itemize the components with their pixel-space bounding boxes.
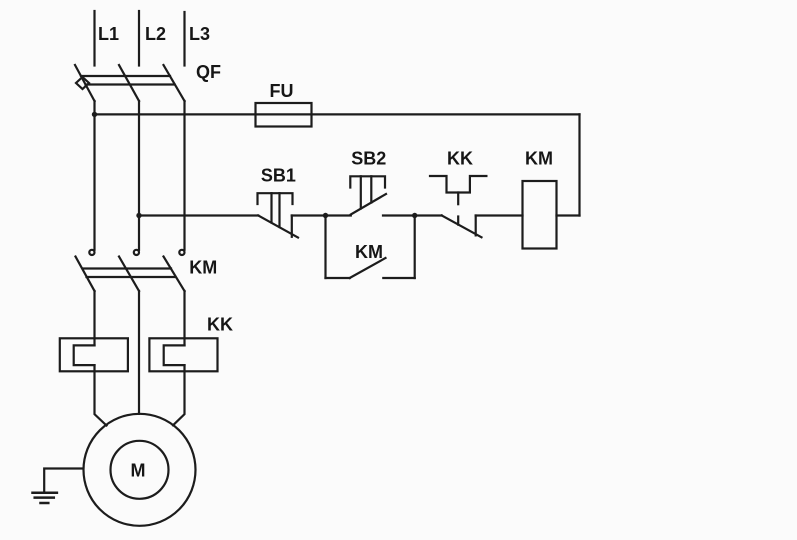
wire control feed to SB1 — [139, 214, 258, 216]
wire right drop to coil branch — [578, 114, 580, 215]
wire L2 below QF — [138, 101, 140, 250]
svg-text:KM: KM — [525, 149, 553, 169]
svg-text:L1: L1 — [98, 24, 119, 44]
node on L1 (control tap) — [92, 112, 97, 117]
wire top control bus — [95, 113, 580, 115]
svg-text:KM: KM — [189, 258, 217, 278]
wire L3 below QF — [183, 101, 185, 250]
wire motor to ground — [44, 469, 82, 493]
wire SB2 to node B — [383, 214, 415, 216]
thermal element KK (phase L3) — [149, 338, 217, 371]
contactor KM main contacts (3-pole) — [76, 250, 185, 291]
phase line L2 — [138, 11, 140, 66]
svg-text:FU: FU — [270, 81, 294, 101]
svg-text:QF: QF — [196, 62, 221, 82]
pushbutton SB1 (stop, NC) — [258, 193, 299, 237]
wire L3 heater to motor — [173, 365, 185, 425]
pushbutton SB2 (start, NO) — [350, 176, 386, 214]
wire L1 below QF — [93, 101, 95, 250]
node A (junction) — [323, 213, 328, 218]
node on L2 (control tap) — [136, 213, 141, 218]
wire coil to right drop — [557, 214, 580, 216]
thermal element KK (phase L1) — [60, 338, 128, 371]
wire SB1 to node A — [292, 214, 326, 216]
svg-text:KK: KK — [207, 315, 233, 335]
wire node A to SB2 — [326, 214, 351, 216]
ground — [33, 493, 57, 503]
node B (junction) — [412, 213, 417, 218]
phase line L1 — [93, 11, 95, 66]
svg-text:KM: KM — [355, 242, 383, 262]
svg-text:M: M — [131, 461, 146, 481]
motor M — [84, 414, 196, 526]
svg-text:L3: L3 — [189, 24, 210, 44]
wire L3 KM to heater — [183, 291, 185, 345]
svg-text:L2: L2 — [145, 24, 166, 44]
svg-text:KK: KK — [447, 149, 473, 169]
contact KM (self-holding, NO) — [326, 216, 415, 279]
contact KK (thermal relay, NC) — [430, 176, 486, 237]
wire node B to KK contact — [415, 214, 442, 216]
circuit breaker QF (3-pole) — [75, 65, 185, 101]
phase line L3 — [183, 12, 185, 66]
wire L1 KM to heater — [93, 291, 95, 345]
svg-text:SB2: SB2 — [351, 149, 386, 169]
wire L1 heater to motor — [95, 365, 107, 425]
wire L2 KM to motor — [138, 291, 140, 414]
wire KK to coil KM — [476, 214, 523, 216]
fuse FU — [256, 103, 312, 127]
coil KM (contactor) — [523, 181, 557, 249]
svg-text:SB1: SB1 — [261, 166, 296, 186]
